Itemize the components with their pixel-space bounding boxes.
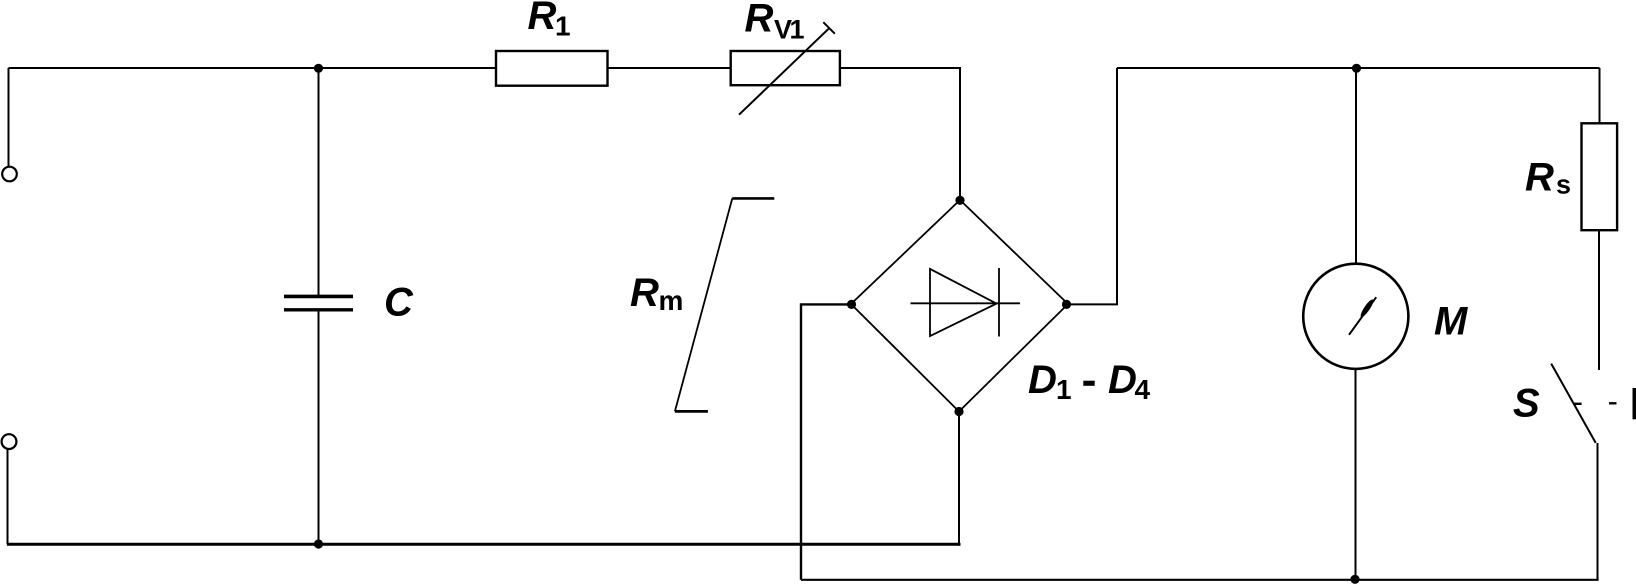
junction node bridge top — [955, 196, 964, 205]
switch S actuator dash 1 — [1574, 403, 1582, 405]
junction node at C top branch — [314, 64, 323, 73]
svg-text:D: D — [1108, 358, 1137, 402]
svg-text:R: R — [528, 0, 557, 38]
wire from top rail down to capacitor C — [318, 68, 320, 296]
junction node at C bottom branch — [314, 539, 323, 548]
capacitor C — [284, 296, 353, 309]
label M — [1434, 300, 1469, 344]
bridge rectifier D1-D4 diamond — [851, 200, 1068, 412]
svg-text:R: R — [745, 0, 774, 41]
junction node bridge left — [847, 300, 856, 309]
wire from RV1 to bridge top corner — [840, 68, 960, 200]
svg-text:R: R — [630, 271, 659, 315]
svg-text:R: R — [1525, 156, 1554, 200]
variable resistor RV1 — [731, 22, 840, 115]
wire second top rail — [1117, 67, 1600, 69]
symbol Rm adjustment stroke — [675, 198, 774, 411]
label Rs — [1525, 156, 1571, 200]
resistor R1 — [496, 51, 608, 86]
junction node meter bottom — [1350, 575, 1359, 584]
svg-text:m: m — [659, 285, 684, 316]
wire from capacitor C down to bottom rail — [318, 310, 320, 545]
svg-text:1: 1 — [1056, 374, 1072, 405]
wire from switch S down to bottom rail — [1597, 443, 1599, 580]
svg-text:C: C — [384, 281, 414, 325]
label S — [1513, 382, 1540, 426]
svg-text:S: S — [1513, 382, 1540, 426]
switch S actuator bar — [1633, 388, 1636, 419]
label Rm — [630, 271, 683, 316]
wire from meter M down to bottom rail — [1355, 369, 1357, 580]
svg-text:4: 4 — [1135, 374, 1151, 405]
svg-text:1: 1 — [555, 11, 571, 42]
wire bottom rail right segment — [801, 579, 1599, 581]
wire from terminal X1 up to top rail — [8, 68, 10, 167]
wire bottom rail left segment — [7, 543, 961, 546]
wire top rail left segment — [9, 67, 497, 69]
label RV1 — [745, 0, 805, 45]
label R1 — [528, 0, 571, 42]
label C — [384, 281, 414, 325]
wire from terminal X2 down to bottom rail — [7, 449, 9, 544]
svg-text:D: D — [1028, 358, 1057, 402]
wire from second top rail down to Rs — [1599, 68, 1601, 123]
svg-text:M: M — [1434, 300, 1469, 344]
wire between R1 and RV1 — [608, 67, 731, 69]
wire bridge left corner to left drop — [801, 304, 852, 579]
resistor Rs — [1582, 123, 1618, 230]
junction node bridge right — [1062, 300, 1071, 309]
label D1 - D4 — [1028, 358, 1151, 405]
wire bridge right corner up to second top rail — [1067, 68, 1118, 304]
meter M — [1303, 264, 1408, 369]
switch S blade — [1551, 364, 1596, 443]
switch S actuator dash 2 — [1609, 402, 1617, 404]
junction node bridge bottom — [954, 407, 963, 416]
svg-text:1: 1 — [790, 15, 805, 45]
diode symbol inside bridge — [911, 268, 1021, 337]
terminal X1 (top-left input) — [2, 167, 17, 182]
svg-text:s: s — [1556, 170, 1571, 200]
terminal X2 (bottom-left input) — [2, 434, 17, 449]
wire from top rail down to meter M — [1355, 68, 1357, 265]
junction node meter branch top — [1352, 64, 1361, 73]
wire bridge bottom corner down to bottom rail — [958, 412, 960, 546]
wire from Rs down to switch S — [1598, 230, 1600, 370]
